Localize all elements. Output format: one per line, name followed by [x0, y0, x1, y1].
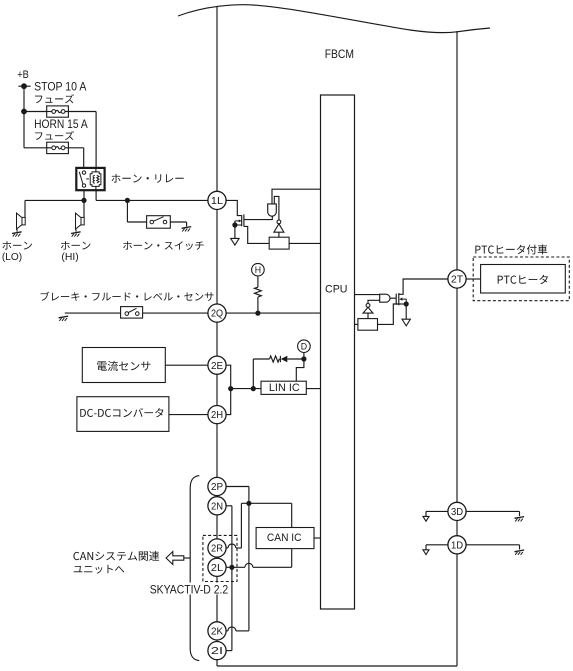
svg-text:CAN IC: CAN IC — [267, 532, 302, 544]
svg-text:FBCM: FBCM — [325, 48, 354, 61]
svg-text:HORN 15 A: HORN 15 A — [34, 118, 88, 131]
svg-text:2R: 2R — [211, 543, 223, 555]
svg-text:1D: 1D — [451, 539, 463, 551]
svg-text:3D: 3D — [451, 506, 463, 518]
svg-text:2E: 2E — [211, 360, 223, 372]
svg-text:2I: 2I — [211, 645, 223, 657]
svg-text:(HI): (HI) — [61, 252, 78, 263]
svg-text:2K: 2K — [211, 626, 223, 638]
svg-text:D: D — [301, 341, 307, 351]
svg-text:2T: 2T — [451, 274, 464, 286]
svg-text:1L: 1L — [211, 195, 223, 207]
svg-text:CPU: CPU — [325, 284, 348, 296]
svg-text:2L: 2L — [211, 562, 223, 574]
svg-text:2N: 2N — [211, 500, 223, 512]
svg-text:LIN IC: LIN IC — [269, 382, 300, 394]
svg-text:H: H — [255, 265, 261, 275]
svg-text:2Q: 2Q — [211, 308, 223, 320]
svg-text:(LO): (LO) — [2, 252, 22, 263]
svg-text:2H: 2H — [211, 409, 223, 421]
svg-text:SKYACTIV-D 2.2: SKYACTIV-D 2.2 — [150, 583, 229, 597]
svg-text:2P: 2P — [211, 481, 223, 493]
svg-text:+B: +B — [17, 69, 29, 81]
svg-text:STOP 10 A: STOP 10 A — [34, 80, 87, 93]
